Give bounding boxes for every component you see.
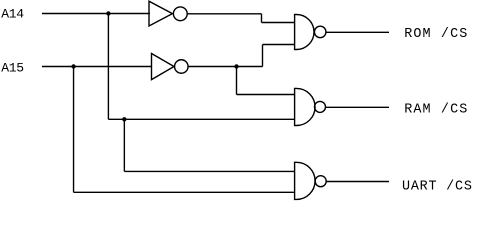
inverter U2 triangle: [152, 54, 175, 80]
inverter U1 triangle: [149, 1, 172, 26]
NAND gate U4 RAM body: [295, 88, 315, 125]
wire U1 output step down: [261, 14, 263, 23]
NAND gate U3 output bubble: [314, 26, 326, 38]
wire U1 output: [187, 13, 261, 15]
junction U2 output branch: [234, 64, 238, 68]
wire A14 lead: [42, 13, 150, 15]
svg-text:UART /CS: UART /CS: [402, 180, 473, 195]
wire A14 branch down to UART gate: [123, 119, 125, 171]
svg-text:A14: A14: [1, 7, 24, 22]
wire ROM output: [326, 31, 389, 33]
NAND gate U5 UART body: [295, 162, 315, 199]
wire to ROM gate upper input: [262, 22, 296, 24]
wire A15 lead: [42, 66, 152, 68]
NAND gate U5 output bubble: [315, 176, 326, 187]
wire A14 branch to UART gate upper input: [124, 170, 295, 172]
junction A14 lower branch: [122, 117, 126, 121]
wire A14 branch to RAM gate lower input: [108, 118, 295, 120]
wire to RAM gate upper input: [237, 94, 296, 96]
svg-text:A15: A15: [1, 61, 24, 76]
junction A15 branch: [71, 64, 75, 68]
wire RAM output: [326, 106, 390, 108]
wire A14 vertical branch: [107, 14, 109, 120]
svg-text:ROM /CS: ROM /CS: [404, 27, 468, 42]
inverter U2 bubble: [175, 60, 189, 74]
wire A15 branch to UART gate lower input: [74, 191, 295, 193]
wire to ROM gate lower input: [263, 44, 296, 46]
NAND gate U4 output bubble: [315, 101, 326, 112]
junction A14 branch: [106, 11, 110, 15]
wire U2 output: [188, 66, 262, 68]
wire U2 output step up: [262, 45, 264, 67]
NAND gate U3 ROM body: [295, 15, 314, 50]
svg-text:RAM /CS: RAM /CS: [404, 102, 468, 117]
wire UART output: [326, 181, 389, 183]
inverter U1 bubble: [173, 7, 187, 21]
wire U2 branch down to RAM gate: [236, 67, 238, 95]
wire A15 vertical branch: [73, 67, 75, 193]
